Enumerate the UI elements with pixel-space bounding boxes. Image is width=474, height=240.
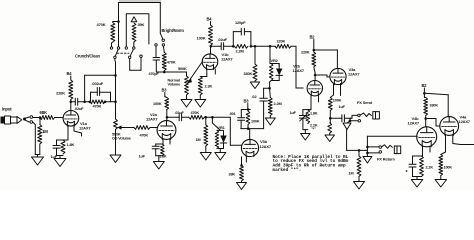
- varistor VR2 clipper: [269, 46, 282, 88]
- capacitor 1uF (V1a cathode bypass): [51, 140, 69, 159]
- triode V2b 12AX7: [293, 64, 323, 96]
- svg-text:.02uF: .02uF: [175, 111, 185, 115]
- node B3 (V2a supply): [162, 88, 168, 98]
- ground (V1b cathode): [195, 100, 206, 108]
- wire / junction to 470K-.002uF network: [83, 101, 117, 104]
- triode V4b 12AX7: [408, 116, 437, 147]
- node B4 (V1a supply): [67, 71, 73, 80]
- potentiometer 500K Normal Volume: [168, 61, 203, 100]
- wire input tip to grid network: [33, 116, 58, 119]
- wire coupling chain: [252, 45, 276, 48]
- svg-text:12AX7: 12AX7: [408, 121, 420, 126]
- svg-text:470K: 470K: [140, 133, 149, 137]
- svg-text:100K: 100K: [251, 119, 260, 123]
- svg-text:470K: 470K: [93, 104, 102, 109]
- svg-text:220K: 220K: [56, 91, 65, 96]
- resistor 1.8K (V1a cathode): [57, 140, 75, 159]
- wire to V3b grid: [204, 116, 241, 145]
- svg-text:B3: B3: [162, 88, 168, 93]
- svg-text:330K: 330K: [244, 71, 253, 76]
- ground (2.2M): [265, 118, 275, 125]
- svg-text:2.2M: 2.2M: [274, 101, 282, 106]
- V2a cathode network 1uF / 1.8K: [139, 139, 171, 162]
- ground (OD Volume): [110, 155, 121, 163]
- capacitor 120pF parallel resistor 2.2M: [232, 20, 252, 53]
- svg-text:39K: 39K: [138, 22, 145, 27]
- wire V4b plate to V4a grid: [426, 119, 440, 127]
- ground (V4a cathode): [435, 180, 447, 188]
- note text block: [273, 154, 349, 173]
- capacitor 1uF (FX send coupling): [330, 105, 352, 122]
- svg-text:FX Return: FX Return: [377, 157, 395, 162]
- svg-text:B3: B3: [244, 99, 250, 104]
- svg-text:100K: 100K: [153, 102, 162, 106]
- svg-text:VR2: VR2: [271, 58, 279, 63]
- resistor 330K (V4b plate load): [424, 98, 439, 128]
- capacitor .02uF (V1b coupling): [218, 37, 233, 50]
- resistor 68K (grid stopper): [40, 110, 55, 120]
- svg-text:B4: B4: [67, 71, 73, 76]
- capacitor .02uF (V1a plate coupling): [74, 98, 85, 111]
- ground (1M): [200, 153, 211, 161]
- svg-text:B2: B2: [310, 35, 316, 40]
- wire top rail scan shade: [119, 0, 161, 3]
- ground (FX return sleeve): [363, 157, 372, 164]
- svg-text:2.3K: 2.3K: [205, 84, 213, 89]
- svg-text:1.8K: 1.8K: [67, 142, 75, 147]
- svg-text:100K: 100K: [444, 166, 453, 170]
- V3b cathode 39K: [229, 156, 247, 182]
- svg-text:500K: 500K: [178, 66, 187, 71]
- resistor 470K (bright bleed): [162, 46, 176, 70]
- capacitor .001 parallel resistor 100K (V3b plate load): [229, 101, 264, 140]
- svg-text:39K: 39K: [229, 173, 236, 177]
- capacitor .02 (to V3b plate): [252, 88, 268, 101]
- svg-text:120pF: 120pF: [235, 20, 246, 25]
- wire V1b plate node: [210, 45, 222, 54]
- svg-text:100K: 100K: [197, 36, 206, 41]
- svg-text:2.2K: 2.2K: [426, 166, 434, 170]
- svg-text:1M: 1M: [42, 129, 48, 134]
- svg-text:Input: Input: [2, 107, 12, 112]
- resistor 100K (V1b plate load): [197, 25, 213, 46]
- resistor 470K (series): [189, 111, 205, 119]
- capacitor .02uF (V2a coupling): [167, 111, 189, 121]
- resistor 220K (V1a plate load): [56, 80, 73, 100]
- svg-text:12AX7: 12AX7: [221, 57, 233, 62]
- V2b cathode network 1uF / 1.8K: [290, 95, 319, 134]
- resistor 470K (V2a grid): [127, 126, 157, 138]
- V4b cathode network 2.2K with * cap: [406, 146, 434, 179]
- svg-text:Volume: Volume: [168, 83, 181, 87]
- wire 68K to V1a grid: [58, 117, 63, 119]
- svg-text:1uF: 1uF: [339, 105, 346, 109]
- svg-text:"*": "*": [311, 127, 316, 131]
- svg-text:Bright/Norm: Bright/Norm: [162, 28, 185, 33]
- switch SW1 Crunch/Clean: [75, 3, 135, 59]
- svg-text:.002uF: .002uF: [92, 81, 104, 86]
- varistor VR1 clipper: [212, 117, 226, 152]
- resistor 220K (V2b plate load): [301, 50, 316, 73]
- jack FX Return: [367, 145, 400, 162]
- svg-text:B2: B2: [422, 83, 428, 88]
- resistor 1M (input load): [38, 118, 48, 155]
- ground (V3b cathode): [237, 183, 247, 190]
- triode V1a 12AX7: [63, 111, 91, 131]
- resistor (V3a lower cathode leg): [328, 123, 332, 135]
- svg-text:470K: 470K: [191, 111, 200, 115]
- node VR2 bottom junction: [263, 87, 271, 98]
- wire bypass loop (clean path around network): [85, 74, 117, 102]
- triode V4a 12AX7: [440, 115, 471, 136]
- node B2 (V2b/V3a supply): [310, 35, 316, 52]
- node B3 (V3b supply): [244, 99, 250, 111]
- triode V3b 12AX7: [241, 139, 272, 156]
- wire FX return node to V4b grid: [366, 136, 417, 156]
- ground (V1a cathode): [54, 159, 66, 167]
- resistor 1M (return grid leak): [349, 149, 361, 181]
- wire V2b plate to V3a grid: [314, 73, 330, 81]
- resistor 1M (grid leak): [196, 117, 208, 152]
- ground (Normal Volume): [181, 100, 192, 108]
- wire jack sleeve to ground: [33, 122, 40, 157]
- V1a cathode wires: [68, 125, 82, 140]
- jack FX Send: [349, 100, 380, 122]
- svg-text:220K: 220K: [301, 51, 310, 55]
- V3a cathode follower network 100K: [328, 84, 341, 123]
- svg-text:330K: 330K: [430, 104, 439, 108]
- svg-text:100K: 100K: [333, 98, 342, 102]
- wire FX send normal contact to return: [343, 121, 367, 151]
- svg-text:68K: 68K: [40, 110, 48, 115]
- wire switch pole 2 loop: [130, 55, 143, 70]
- svg-text:B4: B4: [207, 17, 213, 22]
- ground (V2b cathode): [301, 134, 311, 141]
- V1b cathode network 2.3K: [198, 69, 215, 100]
- triode V3a 12AX7: [330, 67, 361, 85]
- ground (V4b cathode): [411, 180, 423, 188]
- triode V1b 12AX7: [202, 52, 233, 70]
- V4a cathode network 100K and output: [439, 134, 474, 179]
- resistor 470K (crunch feed): [97, 22, 115, 44]
- resistor 220K (series to V2b grid): [275, 39, 303, 89]
- wire V1a plate node: [70, 100, 76, 111]
- svg-text:1uF: 1uF: [139, 154, 146, 158]
- wire switch pole 1 down to OD volume: [114, 59, 117, 120]
- resistor 2.2M (V2b grid leak): [268, 98, 281, 119]
- capacitor .002uF (parallel with 470K): [91, 81, 111, 102]
- wire B2 to V4a plate: [424, 93, 448, 116]
- svg-text:1.8K: 1.8K: [159, 155, 167, 159]
- svg-text:12AX7: 12AX7: [293, 68, 305, 73]
- svg-text:12AX7: 12AX7: [348, 72, 360, 77]
- svg-text:470K: 470K: [97, 22, 106, 27]
- svg-text:1M: 1M: [349, 172, 354, 176]
- svg-text:.02uF: .02uF: [218, 37, 228, 42]
- svg-text:.001: .001: [229, 112, 236, 116]
- svg-text:12AX7: 12AX7: [79, 126, 91, 131]
- ground (VR1): [215, 153, 226, 161]
- svg-text:2.2M: 2.2M: [236, 48, 244, 53]
- ground (return 1M): [354, 182, 365, 190]
- capacitor 470pF (bright cap): [149, 46, 160, 76]
- svg-text:1.8K: 1.8K: [310, 111, 318, 115]
- ground (input): [32, 157, 44, 165]
- node B2 (return amp supply): [422, 83, 428, 98]
- svg-text:12AX7: 12AX7: [260, 144, 272, 149]
- wire top rail: [113, 3, 161, 23]
- potentiometer 500K OD Volume: [112, 119, 131, 155]
- svg-text:FX Send: FX Send: [357, 100, 373, 105]
- input jack J1: [1, 107, 33, 125]
- potentiometer 39K (gain pot in box): [126, 14, 149, 45]
- resistor 330K (to ground): [244, 46, 258, 82]
- wire B2 to V3a plate: [314, 50, 338, 68]
- triode V2a 12AX7: [146, 112, 176, 139]
- svg-text:470pF: 470pF: [149, 72, 160, 76]
- svg-text:Crunch/Clean: Crunch/Clean: [75, 54, 100, 59]
- svg-text:12AX7: 12AX7: [146, 116, 158, 121]
- svg-text:1M: 1M: [196, 138, 201, 142]
- ground (V3a cathode): [325, 135, 335, 142]
- resistor 470K (parallel network): [90, 100, 111, 109]
- wire bright network to volume pot: [156, 71, 186, 74]
- switch SW2 Bright/Norm: [155, 3, 184, 47]
- svg-text:.02uF: .02uF: [74, 106, 84, 111]
- svg-text:OD Volume: OD Volume: [112, 137, 131, 141]
- svg-text:470K: 470K: [167, 60, 176, 65]
- svg-text:220K: 220K: [277, 39, 286, 44]
- svg-text:marked "*".: marked "*".: [273, 167, 302, 173]
- svg-text:1uF: 1uF: [290, 111, 297, 115]
- node B4 (V1b supply): [207, 17, 213, 26]
- svg-text:12AX7: 12AX7: [459, 119, 471, 124]
- resistor 100K (V2a plate load): [153, 98, 169, 122]
- ground (V2a cathode): [153, 162, 164, 170]
- ground (330K): [250, 82, 260, 89]
